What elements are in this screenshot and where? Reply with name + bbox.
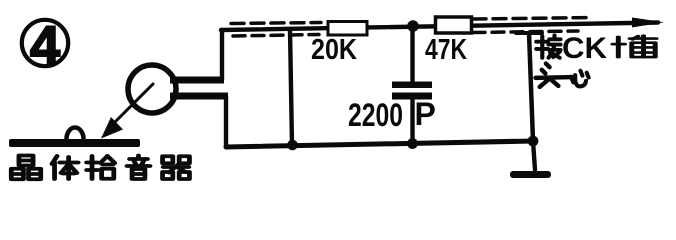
hanzi QI (device) of pickup label [163,156,190,179]
wire: capacitor to ground bus [410,99,414,144]
wire: shield drain to ground bus [290,29,292,145]
hanzi SHI (pick-up) of pickup label [87,156,115,179]
svg-text:2200: 2200 [348,97,403,133]
svg-text:4: 4 [30,16,60,76]
hanzi JIE (connect) of output label [536,35,560,57]
resistor 47K (box) [436,17,472,33]
capacitor 2200P bottom plate [392,93,432,100]
pickup top terminal stub [170,77,224,84]
shield dashed line below-left [233,35,319,37]
capacitor 2200P top plate [392,82,432,89]
junction dot capacitor/ground bus [407,138,418,149]
wire: bottom ground bus [226,141,533,147]
hanzi TI (body) of pickup label [52,156,78,179]
svg-text:20K: 20K [311,34,357,66]
ground symbol [510,171,551,178]
crystal cartridge body (bar) [9,139,140,147]
arrow head at end of output wire [632,18,664,28]
pointer arrow from pickup symbol to cartridge [101,84,153,139]
wire: CK plug sleeve drop [516,33,542,141]
junction dot at 20K/47K node [407,20,419,32]
junction dot shield/ground bus [287,140,298,151]
shield dashed line above-right [473,18,592,20]
wire: down to ground symbol [533,141,535,170]
shield dashed line below-right [473,31,578,33]
resistor 20K (box) [328,22,367,36]
pickup bottom terminal stub [170,93,228,100]
hanzi JING (crystal-1) of pickup label [11,156,40,180]
wire: node down to capacitor [410,26,414,82]
svg-text:CK: CK [562,32,607,65]
svg-text:47K: 47K [425,34,467,66]
svg-text:P: P [415,96,436,132]
wire: top terminal rising to signal rail [220,30,224,80]
crystal pickup transducer symbol (circle) [128,65,176,113]
wire: pickup bottom terminal to ground bus [224,96,228,147]
junction dot at ground bus right end [528,136,539,147]
wire: top signal rail [221,23,658,31]
shield dashed line above-left [231,23,321,24]
hanzi TOU (head) of output label [536,64,574,87]
figure number 4 (circled) [22,16,68,76]
hanzi YIN (sound) of pickup label [127,156,150,180]
hanzi XIN (heart/center) of output label [571,71,589,87]
cartridge stylus arch [67,128,84,139]
hanzi CHA (plug) of output label [613,36,656,57]
